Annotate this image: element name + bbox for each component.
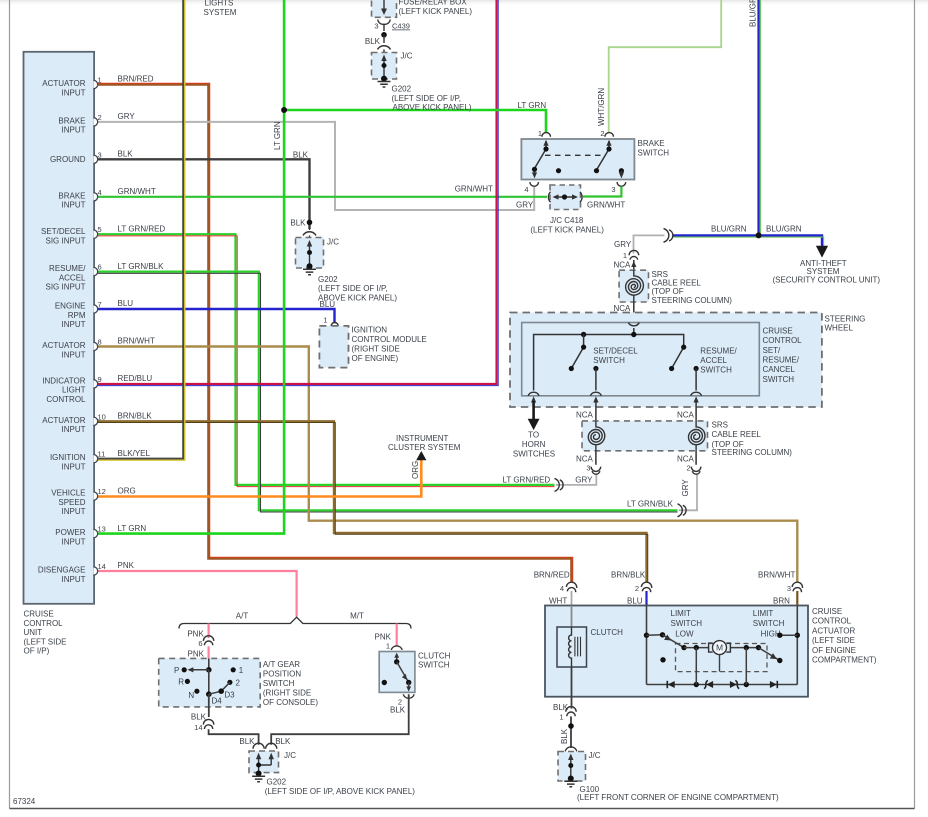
svg-text:BRN/RED: BRN/RED xyxy=(118,75,154,84)
wire RED/BLU pin9 to top of page xyxy=(96,0,497,384)
svg-text:GRN/WHT: GRN/WHT xyxy=(118,187,156,196)
svg-text:CRUISE: CRUISE xyxy=(812,607,842,616)
wire BLU/GRN horizontal to anti-theft xyxy=(673,235,823,247)
svg-text:C439: C439 xyxy=(392,22,410,31)
pin 4 connector xyxy=(530,182,539,186)
svg-text:GROUND: GROUND xyxy=(50,155,86,164)
svg-text:2: 2 xyxy=(635,584,639,593)
svg-text:ACTUATOR: ACTUATOR xyxy=(42,341,85,350)
pin 6 RESUME/ACCEL SIG INPUT xyxy=(94,267,98,275)
wire LT GRN branch to brake switch pin1 xyxy=(284,110,546,133)
svg-text:POWER: POWER xyxy=(55,528,85,537)
svg-text:CONTROL: CONTROL xyxy=(46,395,86,404)
svg-text:ORG: ORG xyxy=(411,461,420,479)
pin 12 VEHICLE SPEED INPUT xyxy=(94,492,98,500)
svg-text:(LEFT FRONT CORNER OF ENGINE C: (LEFT FRONT CORNER OF ENGINE COMPARTMENT… xyxy=(577,793,779,802)
svg-text:(SECURITY CONTROL UNIT): (SECURITY CONTROL UNIT) xyxy=(773,275,881,284)
wire LT GRN main vertical and pin13 xyxy=(96,0,284,534)
svg-text:N: N xyxy=(188,691,194,700)
svg-text:BLK: BLK xyxy=(365,37,381,46)
svg-text:BLK: BLK xyxy=(191,713,207,722)
node bus junction xyxy=(631,332,636,337)
svg-text:3: 3 xyxy=(611,185,615,194)
ground G100 xyxy=(564,781,577,787)
svg-text:(LEFT SIDE: (LEFT SIDE xyxy=(24,637,67,646)
svg-text:G202: G202 xyxy=(392,85,412,94)
svg-text:1: 1 xyxy=(323,316,327,325)
svg-text:ACTUATOR: ACTUATOR xyxy=(42,416,85,425)
wire BLK to G100 xyxy=(570,697,573,748)
svg-text:ENGINE: ENGINE xyxy=(55,302,86,311)
svg-text:OF ENGINE): OF ENGINE) xyxy=(352,354,399,363)
svg-text:INPUT: INPUT xyxy=(62,320,86,329)
junction connector J/C (pin3 ground) xyxy=(296,238,324,269)
svg-text:SWITCH: SWITCH xyxy=(671,619,703,628)
svg-text:LT GRN/RED: LT GRN/RED xyxy=(503,475,551,484)
wire GRN/WHT pin4 to J/C C418 xyxy=(96,196,547,198)
svg-text:(LEFT KICK PANEL): (LEFT KICK PANEL) xyxy=(530,225,604,234)
svg-text:BRN: BRN xyxy=(773,596,790,605)
svg-text:ACCEL: ACCEL xyxy=(700,356,727,365)
svg-text:A/T GEAR: A/T GEAR xyxy=(263,660,300,669)
svg-text:J/C: J/C xyxy=(589,751,601,760)
svg-text:LT GRN: LT GRN xyxy=(518,101,547,110)
svg-text:(LEFT SIDE OF I/P,: (LEFT SIDE OF I/P, xyxy=(318,284,388,293)
svg-text:GRN/WHT: GRN/WHT xyxy=(587,201,625,210)
svg-text:INDICATOR: INDICATOR xyxy=(42,376,85,385)
wire BLK clutch to box bottom xyxy=(571,667,573,697)
svg-text:SPEED: SPEED xyxy=(58,498,85,507)
svg-text:BLU/GRN: BLU/GRN xyxy=(766,224,802,233)
bottom rail xyxy=(647,684,798,686)
svg-text:2: 2 xyxy=(600,129,604,138)
svg-text:PNK: PNK xyxy=(118,561,135,570)
svg-text:CLUSTER SYSTEM: CLUSTER SYSTEM xyxy=(388,443,461,452)
SRS cable reel 2 box xyxy=(582,421,708,451)
svg-text:BLK: BLK xyxy=(293,150,309,159)
svg-text:LT GRN: LT GRN xyxy=(273,121,282,150)
svg-text:GRY: GRY xyxy=(118,112,136,121)
ground G202 (bottom) xyxy=(252,776,265,782)
svg-text:6: 6 xyxy=(98,263,102,272)
wire PNK A/T drop xyxy=(208,624,210,639)
wire BLK/YEL pin11 from lights system xyxy=(96,0,183,459)
node junction below C439 xyxy=(381,32,387,38)
connector inline )) resume/accel xyxy=(678,504,683,517)
svg-text:LIGHTS: LIGHTS xyxy=(205,0,234,8)
svg-text:BLK: BLK xyxy=(118,150,134,159)
svg-text:RPM: RPM xyxy=(68,311,86,320)
svg-text:2: 2 xyxy=(687,464,691,473)
svg-text:M: M xyxy=(716,643,723,653)
clutch switch output xyxy=(408,683,410,688)
svg-text:1: 1 xyxy=(386,642,390,651)
steering wheel outer box xyxy=(510,313,822,408)
svg-text:1: 1 xyxy=(559,712,563,721)
connector at inner box top xyxy=(628,323,639,326)
svg-text:D3: D3 xyxy=(224,690,235,699)
svg-text:M/T: M/T xyxy=(350,611,364,620)
svg-text:8: 8 xyxy=(98,338,102,347)
coil spiral reel 2 left xyxy=(588,421,604,451)
svg-text:J/C C418: J/C C418 xyxy=(550,216,584,225)
svg-text:SET/DECEL: SET/DECEL xyxy=(593,346,638,355)
svg-text:BLU: BLU xyxy=(320,300,336,309)
connector set/decel at inner box bottom xyxy=(590,392,601,396)
wire BRN actuator connector 3 to box xyxy=(796,591,798,606)
svg-text:BRN/WHT: BRN/WHT xyxy=(118,337,155,346)
clutch box xyxy=(557,627,587,667)
svg-text:CONTROL: CONTROL xyxy=(763,336,803,345)
wire BLK clutch switch to J/C right xyxy=(271,694,409,745)
wire WHT inside to clutch xyxy=(571,606,573,628)
svg-text:OF ENGINE: OF ENGINE xyxy=(812,646,856,655)
svg-text:STEERING COLUMN): STEERING COLUMN) xyxy=(652,296,733,305)
connector inline )) xyxy=(664,229,669,243)
wire LT GRN/RED pin5 to connector xyxy=(96,234,555,485)
coil spiral reel 2 right xyxy=(689,421,705,451)
svg-text:BRN/BLK: BRN/BLK xyxy=(611,570,646,579)
svg-text:10: 10 xyxy=(98,412,106,421)
svg-text:STEERING: STEERING xyxy=(825,314,866,323)
svg-text:3: 3 xyxy=(98,150,102,159)
svg-text:LT GRN/RED: LT GRN/RED xyxy=(118,224,166,233)
svg-text:GRN/WHT: GRN/WHT xyxy=(455,184,493,193)
svg-text:INSTRUMENT: INSTRUMENT xyxy=(396,434,449,443)
svg-text:GRY: GRY xyxy=(681,479,690,497)
svg-text:1: 1 xyxy=(239,666,244,675)
clutch switch arm xyxy=(396,656,398,662)
wire GRY segment connector to reel pin2 xyxy=(679,474,697,511)
connector arc J/C left xyxy=(253,743,264,749)
node lone contact xyxy=(660,657,665,662)
rail verticals xyxy=(696,648,746,685)
wire NCA reel to steering wheel xyxy=(633,302,635,316)
svg-text:GRY: GRY xyxy=(614,240,632,249)
svg-text:NCA: NCA xyxy=(576,410,594,419)
arm to P contact xyxy=(192,669,209,671)
connector arc to J/C xyxy=(378,46,391,50)
svg-text:UNIT: UNIT xyxy=(24,628,43,637)
wire to horn switches xyxy=(532,401,535,419)
svg-text:ORG: ORG xyxy=(118,486,136,495)
mechanical link dashed xyxy=(545,154,604,156)
switch resume/accel xyxy=(672,347,684,368)
svg-text:OF CONSOLE): OF CONSOLE) xyxy=(263,698,318,707)
svg-text:INPUT: INPUT xyxy=(62,126,86,135)
connector arc J/C right xyxy=(266,743,277,749)
svg-text:SET/DECEL: SET/DECEL xyxy=(41,227,86,236)
svg-text:BLK: BLK xyxy=(560,728,569,744)
brake switch box xyxy=(521,139,634,180)
svg-text:BLK: BLK xyxy=(239,737,255,746)
pin 1 ACTUATOR INPUT xyxy=(94,80,98,88)
junction connector J/C C418 xyxy=(550,185,581,210)
svg-text:INPUT: INPUT xyxy=(62,88,86,97)
pin 3 contact xyxy=(619,168,624,173)
pin 14 DISENGAGE INPUT xyxy=(94,567,98,575)
pin 10 ACTUATOR INPUT xyxy=(94,417,98,425)
switch arm high xyxy=(759,648,780,661)
svg-text:ACTUATOR: ACTUATOR xyxy=(812,626,855,635)
cruise control unit box xyxy=(24,52,95,604)
node junction BLU/GRN xyxy=(756,232,762,238)
svg-text:12: 12 xyxy=(98,487,106,496)
svg-text:NCA: NCA xyxy=(677,454,695,463)
wire NCA into reel with up arrow xyxy=(633,260,635,270)
wire BLU actuator connector 2 to box xyxy=(645,591,647,606)
svg-text:3: 3 xyxy=(374,22,378,31)
svg-text:GRY: GRY xyxy=(516,200,534,209)
cruise control actuator box xyxy=(545,606,808,697)
wire BRN/RED pin1 to actuator connector 4 xyxy=(96,85,572,583)
svg-text:G202: G202 xyxy=(267,777,287,786)
A/T gear position switch box xyxy=(159,658,261,707)
svg-text:4: 4 xyxy=(524,185,528,194)
svg-text:CONTROL: CONTROL xyxy=(24,619,64,628)
svg-text:INPUT: INPUT xyxy=(62,425,86,434)
svg-text:LIGHT: LIGHT xyxy=(62,386,86,395)
contact 1 xyxy=(231,667,236,672)
svg-text:SWITCH: SWITCH xyxy=(593,356,625,365)
wire PNK into A/T switch xyxy=(208,646,210,658)
svg-text:CRUISE: CRUISE xyxy=(24,610,54,619)
svg-text:CRUISE: CRUISE xyxy=(763,326,793,335)
svg-text:A/T: A/T xyxy=(236,611,249,620)
svg-text:HORN: HORN xyxy=(522,440,546,449)
svg-text:J/C: J/C xyxy=(327,238,339,247)
svg-text:SWITCH: SWITCH xyxy=(263,679,295,688)
svg-text:14: 14 xyxy=(194,723,202,732)
connector inline )) set/decel xyxy=(555,478,560,491)
svg-text:R: R xyxy=(178,678,184,687)
svg-text:LT GRN: LT GRN xyxy=(118,524,147,533)
clutch switch box xyxy=(379,652,415,693)
wire GRY segment connector to reel pin3 xyxy=(556,474,596,485)
ground G202 (pin3) xyxy=(303,269,316,275)
svg-text:LT GRN/BLK: LT GRN/BLK xyxy=(118,262,165,271)
pin 3 GROUND xyxy=(94,155,98,163)
svg-text:(LEFT SIDE: (LEFT SIDE xyxy=(812,636,855,645)
svg-text:INPUT: INPUT xyxy=(62,537,86,546)
fuse/relay box (top, cut off) xyxy=(372,0,397,17)
svg-text:BRN/WHT: BRN/WHT xyxy=(758,570,795,579)
svg-text:IGNITION: IGNITION xyxy=(50,453,86,462)
svg-text:NCA: NCA xyxy=(576,454,594,463)
svg-text:SWITCH: SWITCH xyxy=(763,375,795,384)
svg-text:4: 4 xyxy=(98,188,102,197)
svg-text:LIMIT: LIMIT xyxy=(753,609,774,618)
svg-text:2: 2 xyxy=(98,113,102,122)
wire WHT actuator connector 4 to box xyxy=(571,591,573,606)
ground G202 (top) xyxy=(378,82,391,88)
svg-text:BLK: BLK xyxy=(290,219,306,228)
svg-text:(RIGHT SIDE: (RIGHT SIDE xyxy=(263,689,311,698)
pin 11 IGNITION INPUT xyxy=(94,455,98,463)
svg-text:BRAKE: BRAKE xyxy=(58,116,85,125)
svg-text:P: P xyxy=(174,666,179,675)
svg-text:RESUME/: RESUME/ xyxy=(49,264,86,273)
pin 13 POWER INPUT xyxy=(94,529,98,537)
pin 4 BRAKE INPUT xyxy=(94,193,98,201)
clutch coil xyxy=(569,627,572,667)
svg-text:RESUME/: RESUME/ xyxy=(700,346,737,355)
svg-text:CONTROL: CONTROL xyxy=(812,617,852,626)
svg-text:13: 13 xyxy=(98,525,106,534)
svg-text:IGNITION: IGNITION xyxy=(352,325,388,334)
svg-text:D4: D4 xyxy=(212,696,223,705)
node set/decel tap xyxy=(581,332,586,337)
svg-text:BLK/YEL: BLK/YEL xyxy=(118,449,151,458)
svg-text:SYSTEM: SYSTEM xyxy=(204,8,237,17)
wire PNK pin14 to A/T M/T bracket xyxy=(96,571,297,617)
connector horn at inner box bottom xyxy=(528,392,539,396)
svg-text:3: 3 xyxy=(787,584,791,593)
wire BLU pin7 to ignition control module xyxy=(96,309,335,323)
svg-text:INPUT: INPUT xyxy=(62,350,86,359)
svg-text:WHT/GRN: WHT/GRN xyxy=(597,88,606,126)
wiper arm D4-D3-2 xyxy=(209,682,230,694)
svg-text:SWITCH: SWITCH xyxy=(638,148,670,157)
svg-text:BLK: BLK xyxy=(390,706,406,715)
motor stem xyxy=(719,655,721,672)
diode D3 (zener) xyxy=(735,680,739,688)
svg-text:SIG INPUT: SIG INPUT xyxy=(45,283,85,292)
svg-text:(LEFT KICK PANEL): (LEFT KICK PANEL) xyxy=(399,7,473,16)
pin 9 INDICATOR LIGHT CONTROL xyxy=(94,380,98,388)
junction connector J/C (top) xyxy=(372,53,397,80)
svg-text:ACTUATOR: ACTUATOR xyxy=(42,79,85,88)
wire PNK M/T drop xyxy=(396,624,398,647)
svg-text:SRS: SRS xyxy=(712,420,728,429)
svg-text:LOW: LOW xyxy=(675,629,694,638)
svg-text:SET/: SET/ xyxy=(763,346,782,355)
svg-text:14: 14 xyxy=(98,562,106,571)
wire BRN/WHT pin8 to actuator connector 3 xyxy=(96,347,797,583)
svg-text:BRN/RED: BRN/RED xyxy=(534,570,570,579)
node center contact xyxy=(556,168,561,173)
pin 5 SET/DECEL SIG INPUT xyxy=(94,230,98,238)
svg-text:RED/BLU: RED/BLU xyxy=(118,374,153,383)
svg-text:PNK: PNK xyxy=(188,649,205,658)
svg-text:BLU/GRN: BLU/GRN xyxy=(711,224,747,233)
svg-text:FUSE/RELAY BOX: FUSE/RELAY BOX xyxy=(399,0,468,7)
connector C439 xyxy=(378,20,390,25)
svg-text:1: 1 xyxy=(98,76,102,85)
svg-text:INPUT: INPUT xyxy=(62,507,86,516)
coil spiral SRS reel 1 xyxy=(626,270,644,302)
svg-text:4: 4 xyxy=(560,584,564,593)
pin 2 BRAKE INPUT xyxy=(94,118,98,126)
connector arc to J/C G100 xyxy=(565,747,577,751)
svg-text:INPUT: INPUT xyxy=(62,463,86,472)
svg-text:POSITION: POSITION xyxy=(263,670,301,679)
svg-text:CLUTCH: CLUTCH xyxy=(418,652,451,661)
svg-text:STEERING COLUMN): STEERING COLUMN) xyxy=(712,448,793,457)
node junction LT GRN xyxy=(281,107,287,113)
switch arm low xyxy=(663,635,685,648)
svg-text:SWITCH: SWITCH xyxy=(753,619,785,628)
svg-text:SWITCH: SWITCH xyxy=(418,660,450,669)
wiper vertical xyxy=(208,670,210,694)
svg-text:VEHICLE: VEHICLE xyxy=(51,489,85,498)
SRS cable reel 1 box xyxy=(619,270,648,302)
svg-text:RESUME/: RESUME/ xyxy=(763,356,800,365)
svg-text:TO: TO xyxy=(528,431,539,440)
svg-text:CABLE REEL: CABLE REEL xyxy=(712,430,762,439)
contact 2 xyxy=(227,680,232,685)
wire GRN/WHT pin3 to J/C C418 xyxy=(583,187,621,197)
junction connector J/C (G100) xyxy=(558,752,586,782)
svg-text:SWITCHES: SWITCHES xyxy=(513,449,555,458)
svg-text:7: 7 xyxy=(98,300,102,309)
svg-text:CLUTCH: CLUTCH xyxy=(591,628,624,637)
svg-text:GRY: GRY xyxy=(575,476,593,485)
svg-text:OF I/P): OF I/P) xyxy=(24,647,50,656)
svg-text:ABOVE KICK PANEL): ABOVE KICK PANEL) xyxy=(393,103,472,112)
svg-text:CANCEL: CANCEL xyxy=(763,365,796,374)
svg-text:BLU/GRN: BLU/GRN xyxy=(749,0,758,27)
wire bus inside switch xyxy=(534,335,684,391)
svg-text:(RIGHT SIDE: (RIGHT SIDE xyxy=(352,345,400,354)
svg-text:9: 9 xyxy=(98,375,102,384)
A/T M/T split bracket xyxy=(179,617,411,628)
motor feed line xyxy=(684,647,759,649)
svg-text:WHT: WHT xyxy=(549,596,567,605)
svg-text:BLU: BLU xyxy=(627,596,643,605)
output wire BLK xyxy=(208,694,210,717)
wiper input xyxy=(208,658,210,669)
diode D1 xyxy=(666,681,668,688)
svg-text:G202: G202 xyxy=(318,275,338,284)
svg-text:6: 6 xyxy=(198,639,202,648)
wire LT GRN/BLK pin6 to connector xyxy=(96,272,678,511)
motor dashed enclosure xyxy=(676,644,768,672)
svg-text:J/C: J/C xyxy=(284,751,296,760)
svg-text:DISENGAGE: DISENGAGE xyxy=(38,566,86,575)
wire BLU/GRN vertical from top xyxy=(757,0,759,235)
diode D2 (zener) xyxy=(704,680,708,688)
svg-text:67324: 67324 xyxy=(13,797,36,806)
pin 7 ENGINE RPM INPUT xyxy=(94,305,98,313)
svg-text:(LEFT SIDE OF I/P, ABOVE KICK: (LEFT SIDE OF I/P, ABOVE KICK PANEL) xyxy=(265,787,416,796)
cruise control set/resume/cancel switch inner box xyxy=(522,323,760,396)
wire WHT/GRN from top to brake switch pin2 xyxy=(609,0,722,133)
svg-text:BRN/BLK: BRN/BLK xyxy=(118,412,153,421)
svg-text:11: 11 xyxy=(98,450,106,459)
svg-text:(LEFT SIDE OF I/P,: (LEFT SIDE OF I/P, xyxy=(392,94,462,103)
svg-text:ACCEL: ACCEL xyxy=(59,273,86,282)
diode D4 xyxy=(776,681,778,688)
svg-text:INPUT: INPUT xyxy=(62,575,86,584)
svg-text:5: 5 xyxy=(98,225,102,234)
svg-text:PNK: PNK xyxy=(187,630,204,639)
svg-text:WHEEL: WHEEL xyxy=(825,324,854,333)
wire GRY pin2 to brake switch pin4 xyxy=(96,122,534,210)
svg-text:J/C: J/C xyxy=(401,51,413,60)
connector resume/accel at inner box bottom xyxy=(691,392,702,396)
node lone contact clutch switch xyxy=(382,680,387,685)
svg-text:BRAKE: BRAKE xyxy=(58,191,85,200)
switch set/decel xyxy=(571,335,583,369)
wire BRN/BLK pin10 to actuator connector 2 xyxy=(96,421,647,582)
switch arm right (from pin 2) xyxy=(597,141,610,170)
svg-text:LT GRN/BLK: LT GRN/BLK xyxy=(627,500,674,509)
arrow to instrument cluster xyxy=(417,452,426,460)
svg-text:SIG INPUT: SIG INPUT xyxy=(45,237,85,246)
svg-text:PNK: PNK xyxy=(375,632,392,641)
motor M xyxy=(709,643,731,652)
